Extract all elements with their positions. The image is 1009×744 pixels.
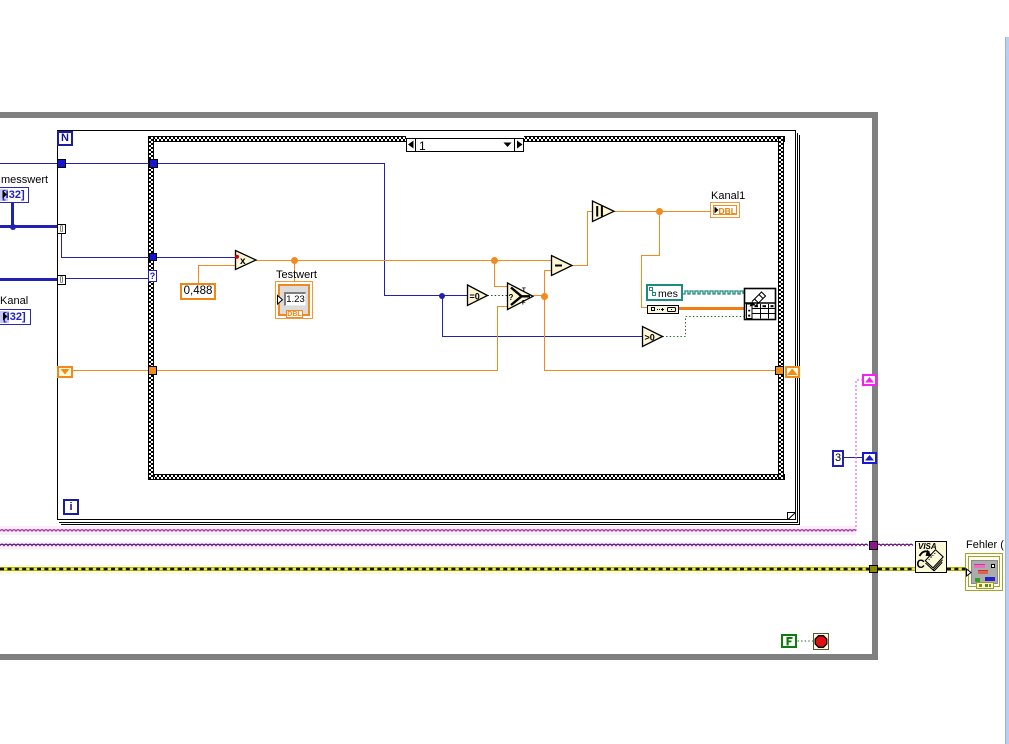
kanal terminal	[0, 309, 31, 325]
wire orange 0,488 vert	[198, 266, 199, 284]
kanal terminal arrow	[3, 313, 8, 321]
wire orange vert x494 select T	[494, 260, 495, 287]
absolute value node	[593, 201, 615, 222]
Fehler label	[966, 540, 1007, 551]
wire messwert thick vert	[11, 202, 14, 226]
junction dot orange select out	[541, 293, 548, 300]
while loop border top	[0, 112, 878, 118]
wire orange vert x544 down to SR	[544, 296, 545, 371]
subtract node	[552, 256, 573, 276]
tunnel blue loop y163	[57, 159, 66, 168]
messwert terminal arrow	[3, 191, 8, 199]
tunnel blue seq y163	[149, 159, 158, 168]
wire orange 0,488 horiz	[198, 265, 236, 266]
Testwert label	[276, 270, 317, 281]
junction dot orange testwert	[291, 257, 298, 264]
wire orange testwert drop	[294, 260, 295, 282]
wire blue y295 to =0	[384, 295, 468, 296]
wire orange y370 to right SR	[544, 370, 775, 371]
Kanal1 DBL indicator terminal	[710, 202, 740, 218]
wire orange y270 to sub F	[544, 270, 552, 271]
wire orange abs out to DBL	[614, 211, 711, 212]
wire orange multiply out	[256, 260, 552, 261]
shift register left down-arrow	[61, 369, 70, 375]
DBL terminal arrow	[715, 207, 719, 214]
tunnel blue seq y257	[149, 253, 157, 261]
wire orange thick converter to table	[679, 307, 745, 310]
wire VISA purple zigzag left	[0, 544, 868, 545]
wire orange vert x659 down	[659, 211, 660, 256]
wire orange y255 jog left	[641, 255, 660, 256]
wire error left	[0, 567, 869, 571]
junction dot blue x442	[439, 293, 445, 299]
sequence selector value 1	[419, 140, 426, 152]
wire boolean dotted F to stop	[798, 640, 814, 642]
selector band mask	[406, 135, 524, 139]
wire blue y163 seg2	[66, 163, 149, 164]
selector left arrow	[408, 141, 414, 149]
wire DAQmx teal zigzag	[683, 291, 743, 294]
sequence border left	[148, 136, 154, 480]
equal zero node	[468, 285, 488, 306]
tunnel orange seq left	[148, 366, 157, 375]
wire indexed y257 seg2 inside	[157, 257, 236, 258]
junction dot orange x494	[491, 257, 498, 264]
wire blue y336 to gt0	[442, 336, 643, 337]
wire orange SR horiz inside	[156, 370, 498, 371]
wire orange vert x641 down	[641, 255, 642, 308]
sequence border bottom	[148, 474, 785, 480]
scrollbar track	[1005, 37, 1009, 744]
wire 3-to-tunnel	[844, 457, 862, 458]
wire kanal thick horiz	[0, 278, 58, 281]
wire orange select out	[533, 295, 545, 296]
tunnel magenta while loop	[862, 374, 877, 386]
multiply node	[235, 251, 256, 270]
tunnel blue while loop	[862, 452, 877, 464]
wire boolean dotted eq0 to select	[488, 295, 508, 297]
wire orange SR horiz outside	[73, 370, 149, 371]
sequence border top	[148, 136, 785, 142]
wire blue y163 seg3	[158, 163, 385, 164]
F glyph	[787, 637, 793, 646]
wire VISA purple zigzag right	[877, 544, 913, 545]
stop button terminal	[813, 633, 829, 650]
wire blue y163 seg1	[0, 163, 58, 164]
Fehler error cluster indicator	[965, 553, 1003, 591]
for loop shadow bottom 2	[61, 524, 800, 525]
wire orange abs in stub	[587, 211, 593, 212]
wire error right	[947, 567, 966, 571]
messwert terminal	[0, 187, 29, 203]
tunnel indexing 1	[57, 224, 66, 234]
stop sign octagon	[815, 636, 827, 648]
wire kanal thin to selector	[65, 278, 149, 279]
constant 0,488	[180, 283, 216, 300]
wire blue vert x442	[442, 295, 443, 337]
wire error mid	[878, 567, 915, 571]
while loop border bottom	[0, 654, 878, 660]
wire orange y306 select F	[497, 306, 508, 307]
wire orange vert x544 up to sub	[544, 270, 545, 296]
wire boolean dotted gt0 out	[663, 317, 745, 337]
for loop shadow right 1	[797, 133, 798, 523]
wire indexed y257 seg1	[61, 257, 149, 258]
constant 3	[832, 450, 844, 467]
Testwert icon terminal	[275, 281, 313, 319]
i box	[63, 499, 79, 515]
tunnel indexing 2	[57, 275, 66, 285]
select node	[508, 283, 534, 310]
messwert label	[1, 175, 48, 186]
Testwert hollow arrow	[278, 296, 283, 305]
for loop frame	[57, 130, 796, 520]
magenta tunnel up-arrow	[865, 377, 874, 383]
VISA close icon art	[920, 550, 946, 572]
converter node	[647, 305, 679, 314]
table express VI icon	[745, 289, 776, 320]
junction dot orange x659	[656, 208, 663, 215]
right margin cover	[1004, 0, 1009, 744]
halo yellow around error wire	[0, 565, 869, 574]
wire orange y286 select T	[494, 286, 508, 287]
Kanal1 label	[711, 191, 745, 202]
sequence selector left cell divider	[415, 138, 416, 152]
Fehler cluster arrow	[967, 569, 972, 576]
kanal label	[0, 296, 28, 307]
blue tunnel up-arrow	[865, 455, 874, 461]
wire cluster magenta vertical dashed	[856, 380, 862, 531]
for loop shadow right 2	[799, 135, 800, 525]
wire orange vert x587 to abs	[587, 211, 588, 266]
halo pink around cluster wire	[0, 526, 856, 535]
halo lavender around visa wire	[0, 542, 856, 550]
shift register right up-arrow	[787, 369, 798, 376]
shift register left	[57, 366, 73, 378]
sequence selector right cell divider	[514, 138, 515, 152]
for loop dog-ear	[788, 513, 797, 521]
wire orange stub to converter	[641, 307, 648, 308]
wire orange vert x497 select F	[497, 306, 498, 371]
wire cluster magenta zigzag	[0, 530, 856, 531]
selector right arrow	[517, 141, 523, 149]
wire indexed vert x61	[61, 234, 62, 258]
N box	[57, 131, 73, 146]
for loop shadow bottom 1	[59, 522, 798, 523]
sequence border right	[778, 136, 784, 480]
tunnel olive solid	[869, 565, 878, 573]
selector dropdown arrow	[504, 143, 512, 148]
shift register right	[785, 366, 800, 378]
greater than zero node	[643, 327, 663, 347]
sequence selector frame	[406, 138, 524, 152]
tunnel purple solid	[869, 541, 878, 550]
wire messwert thick horiz	[0, 225, 58, 228]
tunnel orange seq right	[775, 366, 784, 375]
wire orange sub out	[572, 265, 588, 266]
mes DAQmx constant	[646, 284, 683, 301]
wire blue vert x384	[384, 163, 385, 296]
VISA close icon	[915, 541, 947, 573]
junction dot messwert	[10, 224, 16, 230]
case selector ? box	[148, 270, 157, 282]
while loop border right	[872, 112, 878, 655]
F constant	[781, 634, 797, 648]
